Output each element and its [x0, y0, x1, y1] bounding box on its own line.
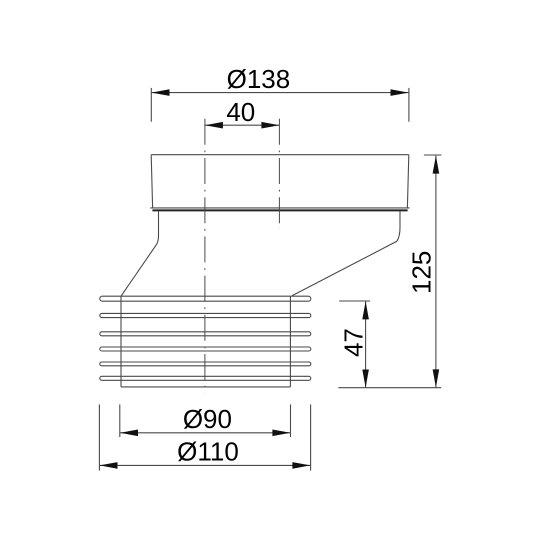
- dimension Ø138 right arrowhead: [391, 89, 409, 96]
- dimension Ø90 line: [120, 432, 290, 434]
- dimension 125 line: [435, 156, 437, 388]
- body lower left vertical edge: [120, 296, 122, 387]
- body lower right vertical edge: [289, 297, 291, 387]
- seal fin 2: [100, 313, 311, 317]
- dimension Ø110 right arrowhead: [292, 462, 310, 469]
- dimension 125 top arrowhead: [433, 156, 440, 174]
- dimension Ø110 left extension line: [98, 404, 100, 470]
- dimension 47 line: [365, 301, 367, 387]
- dimension Ø138 right extension line: [408, 88, 410, 122]
- flange bottom rim thin line: [150, 207, 409, 209]
- flange bottom bold seam line: [152, 209, 407, 211]
- body neck right edge and cone: [292, 211, 400, 295]
- dimension Ø138 line: [152, 92, 409, 94]
- flange top outline: [151, 155, 409, 208]
- svg-text:Ø110: Ø110: [177, 436, 239, 466]
- seal fin 1: [100, 296, 311, 301]
- centerline of flange (top axis): [278, 119, 280, 229]
- dimension Ø110 line: [100, 464, 311, 466]
- svg-text:47: 47: [338, 328, 368, 357]
- dimension 47 top arrowhead: [362, 301, 369, 319]
- dimension 125 top extension line: [424, 154, 442, 156]
- dimension Ø110 left arrowhead: [100, 462, 118, 469]
- dimension Ø90 right extension line: [290, 404, 292, 437]
- seal fin 5: [100, 362, 311, 366]
- svg-text:40: 40: [226, 97, 255, 127]
- dimension Ø138 left extension line: [150, 88, 152, 122]
- seal fin 3: [100, 332, 311, 336]
- dimension 40 left arrowhead: [205, 122, 223, 129]
- svg-text:Ø90: Ø90: [183, 404, 232, 434]
- seal fin 6: [100, 376, 311, 380]
- dimension 47 top extension line: [339, 300, 370, 302]
- svg-text:Ø138: Ø138: [227, 64, 291, 94]
- centerline of outlet (bottom axis): [204, 119, 206, 394]
- dimension Ø110 right extension line: [310, 404, 312, 470]
- dimension Ø90 left extension line: [119, 404, 121, 437]
- dimension Ø90 left arrowhead: [120, 430, 138, 437]
- body neck left edge and cone: [121, 211, 158, 296]
- dimension 40 right arrowhead: [261, 122, 279, 129]
- seal fin 4: [100, 347, 311, 351]
- dimension 47 bottom arrowhead: [362, 370, 369, 388]
- svg-text:125: 125: [407, 251, 437, 294]
- dimension 40 line: [205, 124, 280, 126]
- dimension 125 bottom arrowhead: [433, 369, 440, 387]
- dimension Ø138 left arrowhead: [152, 89, 170, 96]
- dimension Ø90 right arrowhead: [272, 430, 290, 437]
- body bottom edge: [121, 386, 290, 388]
- shared bottom extension line for 47 and 125: [338, 387, 441, 389]
